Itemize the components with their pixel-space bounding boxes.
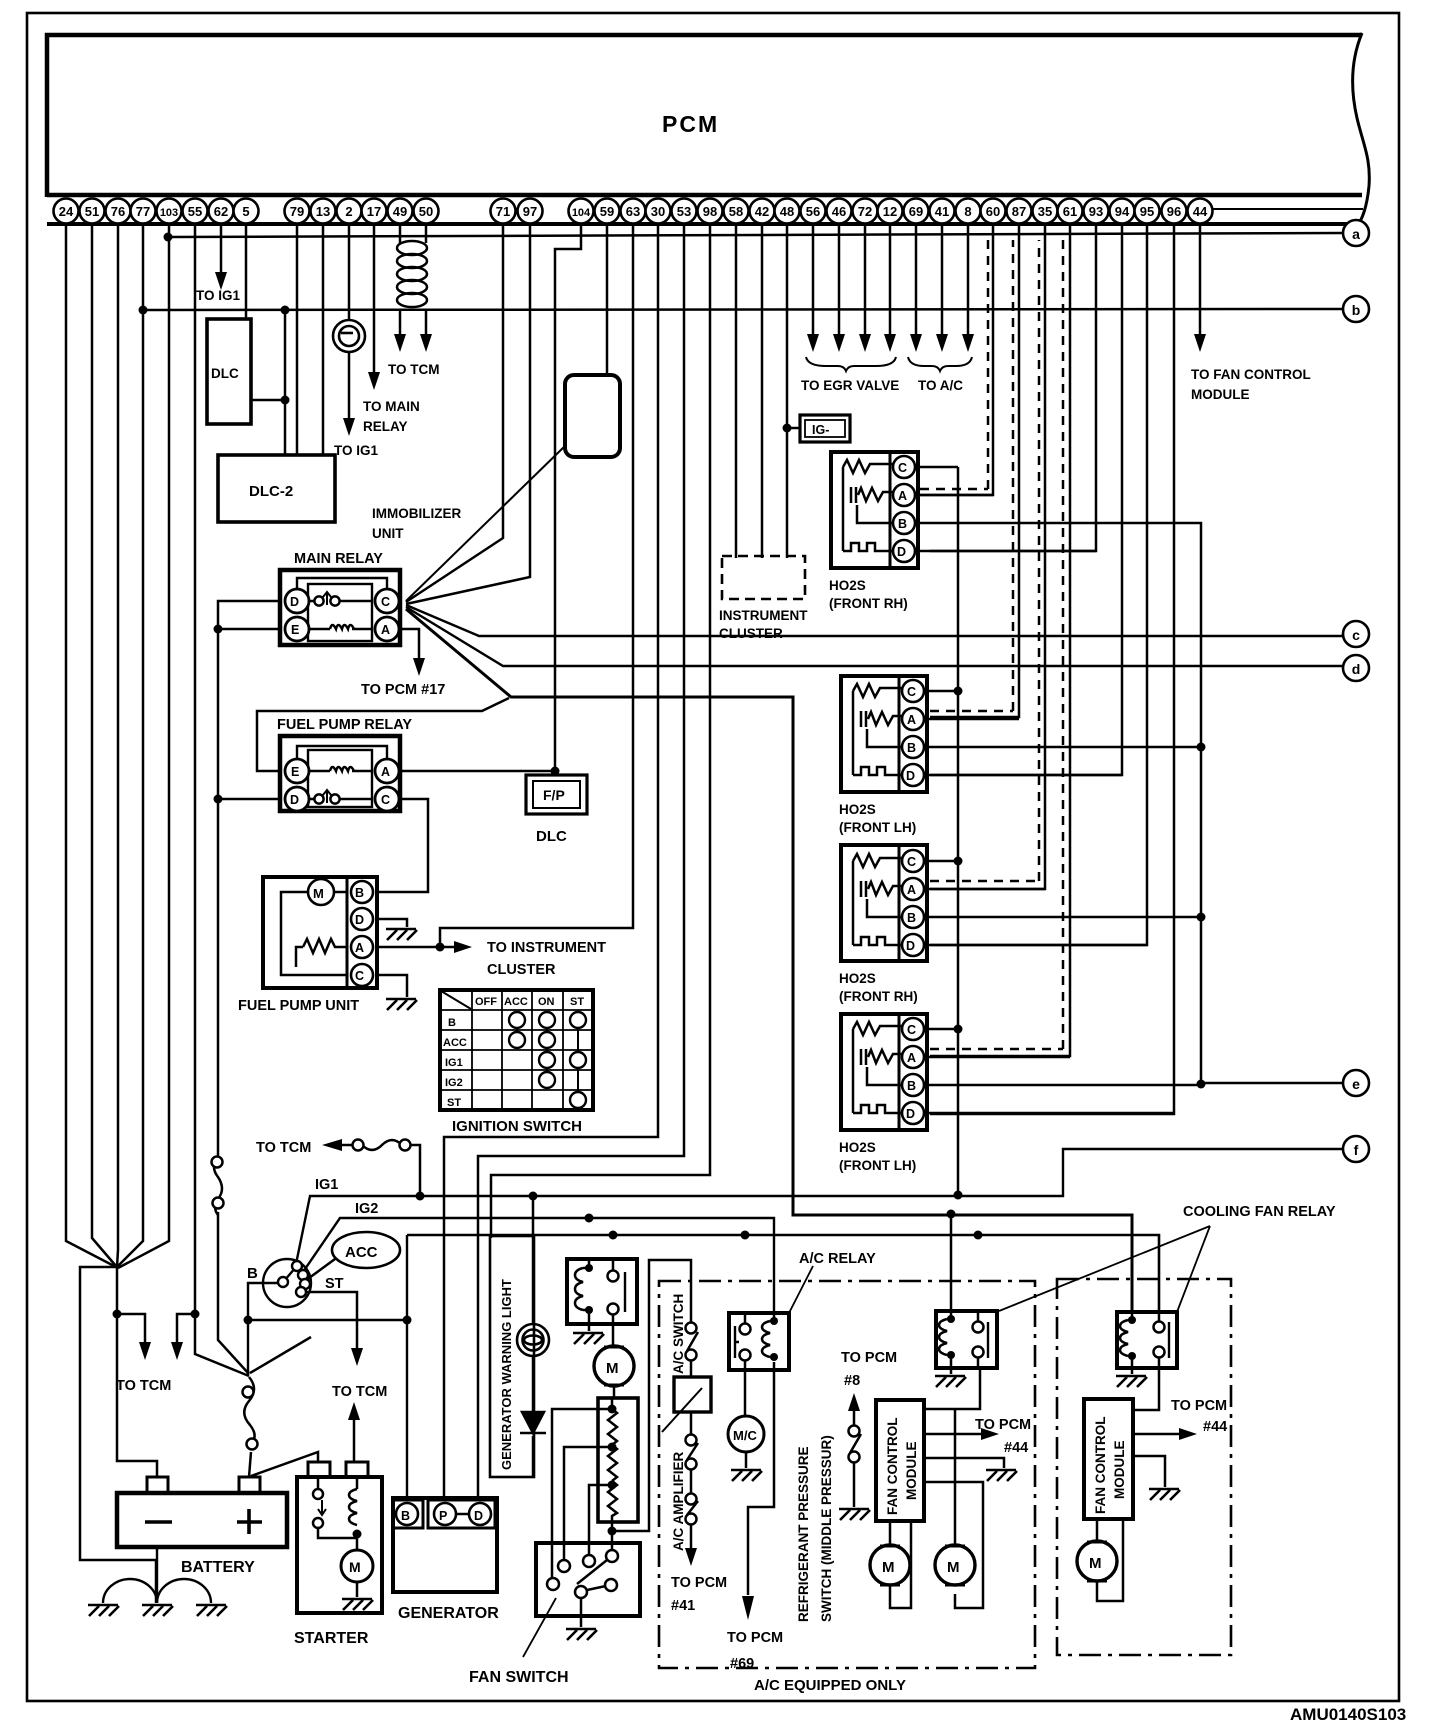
svg-text:C: C <box>381 595 390 609</box>
svg-text:59: 59 <box>600 204 614 219</box>
svg-text:D: D <box>474 1509 483 1523</box>
wire blower relay coil to ground <box>588 1324 591 1331</box>
wire pin 55 <box>195 225 249 1376</box>
wire battery plus to starter <box>251 1452 318 1476</box>
PCM connector pin row (pins 24,51,76,77,103,55,62,5,79,13,2,17,49,50,71,97,104,59,63,30,53,98,58,42,48,56,46,72,12,69,41,8,60,87,35,61,93,94,95,96,44) <box>54 199 1213 224</box>
wire ground trunk to battery minus <box>117 1266 157 1477</box>
node c <box>1343 621 1369 647</box>
ground battery centre <box>142 1605 173 1616</box>
wire resistor tap 3 to fan switch <box>589 1485 612 1555</box>
svg-text:D: D <box>897 545 906 559</box>
fuel pump unit <box>263 877 377 988</box>
svg-text:D: D <box>290 793 299 807</box>
svg-text:TO MAIN: TO MAIN <box>363 399 420 414</box>
arrows TO EGR VALVE group <box>807 334 819 352</box>
ground refrigerant switch <box>839 1509 870 1520</box>
wire pin 61 to HO2S front LH3 A <box>930 225 1070 1056</box>
svg-text:DLC-2: DLC-2 <box>249 483 293 500</box>
arrow pin 44 <box>1194 334 1206 352</box>
svg-text:ST: ST <box>570 996 584 1008</box>
svg-text:PCM: PCM <box>662 111 719 137</box>
battery <box>117 1477 287 1547</box>
wire pin 95 to HO2S front RH2 D <box>930 225 1147 945</box>
svg-text:DLC: DLC <box>211 366 239 381</box>
svg-text:96: 96 <box>1167 204 1181 219</box>
wire main relay A TO PCM 17 <box>400 629 419 660</box>
svg-text:TO IG1: TO IG1 <box>196 288 241 303</box>
svg-text:CLUSTER: CLUSTER <box>719 626 783 641</box>
ignition switch table <box>440 990 593 1110</box>
svg-text:#69: #69 <box>730 1656 754 1672</box>
wire HO2S4 C <box>924 1028 958 1031</box>
ignition switch rotary <box>263 1259 311 1307</box>
svg-text:a: a <box>1352 226 1360 242</box>
svg-text:C: C <box>898 461 907 475</box>
svg-text:TO FAN CONTROL: TO FAN CONTROL <box>1191 367 1311 382</box>
wire HO2S2 C <box>924 690 958 693</box>
wire pin 48 to instrument cluster <box>786 225 789 558</box>
svg-text:#8: #8 <box>844 1373 860 1389</box>
svg-text:D: D <box>355 913 364 927</box>
svg-text:A/C RELAY: A/C RELAY <box>799 1251 876 1267</box>
svg-text:GENERATOR: GENERATOR <box>398 1605 499 1622</box>
wire pin 24 ground <box>66 225 116 1267</box>
svg-text:C: C <box>907 685 916 699</box>
svg-text:72: 72 <box>858 204 872 219</box>
svg-text:TO IG1: TO IG1 <box>334 443 379 458</box>
svg-text:FUEL PUMP RELAY: FUEL PUMP RELAY <box>277 717 412 733</box>
arrow pin 49 <box>394 334 406 352</box>
fan motor 1 <box>870 1521 911 1608</box>
svg-text:FAN SWITCH: FAN SWITCH <box>469 1669 569 1686</box>
wire HO2S1 C to heater bus <box>915 466 958 469</box>
svg-text:62: 62 <box>214 204 228 219</box>
svg-text:44: 44 <box>1193 204 1208 219</box>
svg-text:87: 87 <box>1012 204 1026 219</box>
svg-text:C: C <box>355 969 364 983</box>
wire pin 8 TO A/C <box>967 225 970 336</box>
svg-text:(FRONT LH): (FRONT LH) <box>839 1158 916 1173</box>
svg-text:103: 103 <box>160 207 178 219</box>
ground magnetic clutch <box>745 1452 748 1468</box>
svg-text:61: 61 <box>1063 204 1077 219</box>
wire pin 76 ground <box>117 225 118 1267</box>
wire pin 30 to generator P <box>444 225 658 1500</box>
arrow pin 17 <box>368 372 380 390</box>
ground fuel pump C <box>386 999 417 1010</box>
svg-text:76: 76 <box>111 204 125 219</box>
svg-text:#44: #44 <box>1004 1440 1028 1456</box>
dashed box cooling fan 2 <box>1057 1279 1231 1655</box>
svg-text:REFRIGERANT PRESSURE: REFRIGERANT PRESSURE <box>796 1446 811 1622</box>
wire battery junction diagonal <box>250 1337 311 1373</box>
A/C relay <box>729 1313 789 1370</box>
wire HO2S1 A <box>915 494 993 497</box>
svg-text:B: B <box>247 1265 258 1282</box>
svg-text:104: 104 <box>572 207 591 219</box>
wire bus b from pin 77 <box>143 309 1343 310</box>
svg-text:42: 42 <box>755 204 769 219</box>
svg-text:B: B <box>355 886 364 900</box>
F/P DLC connector <box>526 775 587 814</box>
svg-text:D: D <box>906 769 915 783</box>
wire pin 17 TO MAIN RELAY <box>373 225 376 373</box>
svg-text:56: 56 <box>806 204 820 219</box>
fan motor 2 <box>935 1409 975 1585</box>
svg-text:M: M <box>313 886 324 901</box>
svg-text:A: A <box>898 489 907 503</box>
wire pin 13 to DLC-2 <box>322 225 325 455</box>
svg-text:e: e <box>1352 1076 1360 1092</box>
wire pin 79 to DLC-2 <box>296 225 299 455</box>
svg-text:IG1: IG1 <box>315 1177 338 1193</box>
wire HO2S3 D <box>924 944 1147 947</box>
svg-text:MODULE: MODULE <box>1112 1441 1127 1500</box>
HO2S front RH connector 1 <box>831 452 918 568</box>
wire pin 94 to HO2S front LH D <box>930 225 1122 775</box>
svg-text:MODULE: MODULE <box>1191 387 1250 402</box>
svg-text:ON: ON <box>538 996 555 1008</box>
wire pin 87 to HO2S front LH A <box>930 225 1019 717</box>
svg-text:(FRONT LH): (FRONT LH) <box>839 820 916 835</box>
wire relay2 contact to module2 <box>1133 1368 1159 1410</box>
wire immobilizer pointer to main relay C <box>406 445 566 601</box>
svg-text:INSTRUMENT: INSTRUMENT <box>719 608 808 623</box>
wire fuel pump relay E feed <box>257 698 509 771</box>
svg-text:M: M <box>882 1559 895 1576</box>
lamp generator warning light <box>517 1324 549 1356</box>
ground cooling fan relay 1 <box>950 1368 953 1374</box>
wire resistor tap 2 to fan switch <box>564 1447 612 1560</box>
wire module TO PCM 44 <box>924 1433 985 1436</box>
svg-text:A/C AMPLIFIER: A/C AMPLIFIER <box>671 1452 686 1551</box>
svg-text:17: 17 <box>367 204 381 219</box>
wire HO2S3 A <box>924 888 1045 891</box>
svg-text:AMU0140S103: AMU0140S103 <box>1290 1705 1406 1724</box>
svg-text:HO2S: HO2S <box>839 971 876 986</box>
svg-text:30: 30 <box>651 204 665 219</box>
shield coil on wires 49 and 50 <box>397 241 427 307</box>
svg-text:d: d <box>1352 661 1361 677</box>
pin wires group <box>66 225 1200 1603</box>
wire main relay E <box>218 628 280 631</box>
svg-text:TO PCM: TO PCM <box>727 1630 783 1646</box>
svg-text:53: 53 <box>677 204 691 219</box>
svg-text:B: B <box>907 1079 916 1093</box>
svg-text:M: M <box>349 1559 361 1575</box>
svg-text:IGNITION SWITCH: IGNITION SWITCH <box>452 1118 582 1135</box>
wire module to fan motor 2 <box>924 1482 983 1608</box>
fan control module 1 <box>876 1400 924 1521</box>
svg-text:HO2S: HO2S <box>839 802 876 817</box>
svg-text:C: C <box>381 793 390 807</box>
wire A/C relay coil to PCM 69 <box>748 1370 774 1595</box>
wire battery plus connector squiggle <box>243 1377 258 1450</box>
fan control module 2 <box>1084 1399 1133 1519</box>
wire pin 62 TO IG1 <box>220 225 223 274</box>
wire pin 50 TO TCM <box>425 225 428 336</box>
svg-text:TO PCM #17: TO PCM #17 <box>361 682 445 698</box>
svg-text:ACC: ACC <box>443 1037 467 1049</box>
svg-text:ACC: ACC <box>345 1244 378 1261</box>
svg-text:98: 98 <box>703 204 717 219</box>
svg-text:TO INSTRUMENT: TO INSTRUMENT <box>487 940 606 956</box>
svg-text:ACC: ACC <box>504 996 528 1008</box>
svg-text:b: b <box>1352 302 1361 318</box>
wire pin 42 to instrument cluster <box>761 225 764 558</box>
svg-text:M: M <box>1089 1555 1102 1572</box>
svg-text:TO TCM: TO TCM <box>116 1378 171 1394</box>
svg-text:TO TCM: TO TCM <box>388 362 440 377</box>
svg-text:TO A/C: TO A/C <box>918 378 963 393</box>
blower motor <box>594 1346 634 1386</box>
wire HO2S1 B to sensor bus <box>915 523 1201 1083</box>
svg-text:M: M <box>606 1360 619 1377</box>
wire pin 98 to generator warning light <box>491 225 710 1238</box>
wire pin 44 TO FAN CONTROL MODULE <box>1199 225 1202 336</box>
arrow pin 62 <box>215 272 227 290</box>
svg-text:#44: #44 <box>1203 1419 1227 1435</box>
wire chassis ground branch <box>80 1267 156 1603</box>
svg-text:48: 48 <box>780 204 794 219</box>
wire HO2S4 D <box>924 1112 1174 1115</box>
wire resistor bottom to fan switch and A/C switch <box>612 1260 691 1550</box>
immobilizer unit <box>565 375 620 457</box>
wire module to ground <box>924 1458 1004 1468</box>
wire pin 96 to HO2S front LH3 D <box>930 225 1174 1114</box>
svg-text:ST: ST <box>325 1276 344 1292</box>
svg-text:8: 8 <box>964 204 971 219</box>
wire TO TCM branch right <box>177 1314 195 1344</box>
svg-text:CLUSTER: CLUSTER <box>487 962 556 978</box>
wire node b branch to DLC-2 <box>284 310 287 455</box>
svg-text:2: 2 <box>345 204 352 219</box>
fan motor 3 <box>1077 1519 1123 1601</box>
wire pin 71 to main relay C <box>406 225 503 602</box>
svg-text:IG2: IG2 <box>355 1201 378 1217</box>
svg-text:55: 55 <box>188 204 202 219</box>
wire pin 63 to fuel pump A <box>440 225 633 947</box>
generator <box>393 1498 497 1592</box>
wire fuel pump relay D <box>218 798 280 801</box>
wire A/C relay to magnetic clutch <box>744 1370 747 1416</box>
svg-text:F/P: F/P <box>543 787 565 803</box>
wire pin 77 ground <box>117 225 143 1267</box>
svg-text:RELAY: RELAY <box>363 419 408 434</box>
pin number labels <box>59 204 1208 219</box>
node d <box>1343 655 1369 681</box>
ground blower relay <box>573 1333 604 1344</box>
node f <box>1343 1136 1369 1162</box>
wire bus a from pin 103 <box>168 233 1343 237</box>
wire heater bus <box>957 467 960 1195</box>
HO2S front RH connector 2 <box>841 845 927 961</box>
svg-text:(FRONT RH): (FRONT RH) <box>839 989 918 1004</box>
svg-text:A: A <box>381 623 390 637</box>
IG- box <box>800 415 850 442</box>
svg-text:B: B <box>907 741 916 755</box>
svg-text:51: 51 <box>85 204 99 219</box>
wire pin 5 to DLC <box>245 225 248 319</box>
wire pin 69 TO A/C <box>915 225 918 336</box>
wire pin 58 to instrument cluster <box>735 225 738 558</box>
svg-text:FAN CONTROL: FAN CONTROL <box>885 1418 900 1516</box>
svg-text:93: 93 <box>1089 204 1103 219</box>
svg-text:94: 94 <box>1115 204 1130 219</box>
wire pin 103 ground <box>118 225 169 1268</box>
svg-text:D: D <box>290 595 299 609</box>
svg-text:13: 13 <box>316 204 330 219</box>
wire pin 56 TO EGR VALVE <box>812 225 815 336</box>
instrument cluster <box>722 556 805 599</box>
svg-text:c: c <box>1352 627 1360 643</box>
wire DLC to node <box>251 399 285 402</box>
wire TO TCM branch left <box>117 1314 145 1344</box>
wire HO2S3 C <box>924 860 958 863</box>
brace A/C <box>908 357 972 371</box>
wire fuel pump A to instrument cluster <box>377 946 455 949</box>
svg-text:TO PCM: TO PCM <box>671 1575 727 1591</box>
wire pin 41 TO A/C <box>941 225 944 336</box>
wire HO2S2 A <box>924 718 1019 721</box>
ground cooling fan relay 2 <box>1131 1368 1134 1374</box>
wire pin 46 TO EGR VALVE <box>838 225 841 336</box>
svg-text:97: 97 <box>523 204 537 219</box>
svg-text:TO TCM: TO TCM <box>256 1140 311 1156</box>
wire resistor tap 1 to fan switch <box>552 1409 612 1578</box>
magnetic clutch M/C <box>728 1416 764 1452</box>
svg-text:49: 49 <box>393 204 407 219</box>
svg-text:58: 58 <box>729 204 743 219</box>
wire B feed bus <box>248 1235 407 1500</box>
svg-text:TO PCM: TO PCM <box>1171 1398 1227 1414</box>
svg-text:69: 69 <box>909 204 923 219</box>
wire pin 72 TO EGR VALVE <box>864 225 867 336</box>
svg-text:24: 24 <box>59 204 74 219</box>
svg-text:A: A <box>907 1051 916 1065</box>
wire pin 97 to main relay C <box>406 225 530 604</box>
svg-text:FAN CONTROL: FAN CONTROL <box>1093 1417 1108 1515</box>
wire pin 2 <box>348 225 351 420</box>
wire pin 49 TO TCM <box>399 225 402 336</box>
svg-text:COOLING FAN RELAY: COOLING FAN RELAY <box>1183 1204 1336 1220</box>
generator warning light box <box>490 1236 534 1477</box>
svg-text:MODULE: MODULE <box>904 1442 919 1501</box>
svg-text:OFF: OFF <box>475 996 497 1008</box>
node a <box>1343 220 1369 246</box>
svg-text:77: 77 <box>136 204 150 219</box>
svg-text:HO2S: HO2S <box>839 1140 876 1155</box>
wire module2 to ground <box>1133 1456 1165 1487</box>
svg-text:A: A <box>381 765 390 779</box>
wire HO2S4 A <box>924 1056 1070 1059</box>
wire main relay D west trunk <box>218 601 280 1157</box>
PCM box <box>47 33 1369 226</box>
svg-text:B: B <box>898 517 907 531</box>
svg-text:HO2S: HO2S <box>829 578 866 593</box>
diode <box>520 1412 546 1433</box>
arrows TO A/C group <box>910 334 922 352</box>
svg-text:M/C: M/C <box>733 1428 757 1443</box>
dashed box A/C equipped only <box>659 1281 1035 1668</box>
svg-text:UNIT: UNIT <box>372 526 404 541</box>
wire battery minus to ground <box>156 1547 158 1603</box>
shield dashes HO2S4 <box>930 240 1063 1049</box>
svg-text:MAIN RELAY: MAIN RELAY <box>294 551 383 567</box>
node b <box>1343 296 1369 322</box>
svg-text:63: 63 <box>626 204 640 219</box>
svg-text:TO PCM: TO PCM <box>841 1350 897 1366</box>
DLC box <box>207 319 251 424</box>
svg-text:M: M <box>947 1559 960 1576</box>
wire module to fan relay contact <box>924 1368 980 1409</box>
svg-text:IG2: IG2 <box>445 1077 463 1089</box>
svg-text:12: 12 <box>883 204 897 219</box>
svg-text:E: E <box>291 623 299 637</box>
wire ACC <box>305 1259 335 1281</box>
svg-text:C: C <box>907 855 916 869</box>
shield dashes HO2S1 <box>920 240 988 489</box>
svg-text:60: 60 <box>986 204 1000 219</box>
wire blower relay to motor <box>612 1324 615 1345</box>
svg-text:71: 71 <box>496 204 510 219</box>
blower relay <box>567 1259 637 1324</box>
svg-text:B: B <box>401 1509 410 1523</box>
wire pin 60 to HO2S front RH A <box>920 225 993 495</box>
svg-text:#41: #41 <box>671 1598 695 1614</box>
svg-text:(FRONT RH): (FRONT RH) <box>829 596 908 611</box>
wire inline connector on trunk <box>212 1157 224 1216</box>
svg-text:5: 5 <box>242 204 249 219</box>
svg-text:SWITCH (MIDDLE PRESSUR): SWITCH (MIDDLE PRESSUR) <box>819 1435 834 1622</box>
HO2S front LH connector 2 <box>841 1014 927 1130</box>
ground fan switch <box>566 1629 597 1640</box>
svg-text:A: A <box>907 883 916 897</box>
wire module2 TO PCM 44 <box>1133 1433 1180 1436</box>
fan switch <box>536 1543 640 1627</box>
wire pin 12 TO EGR VALVE <box>889 225 892 336</box>
svg-text:46: 46 <box>832 204 846 219</box>
svg-text:f: f <box>1354 1142 1359 1158</box>
svg-text:D: D <box>906 1107 915 1121</box>
wire pin 35 to HO2S front RH2 A <box>930 225 1045 889</box>
wire HO2S3 B <box>924 916 1201 919</box>
starter <box>297 1462 382 1613</box>
wire relay1 coil feed <box>950 1214 953 1311</box>
fan switch label pointer <box>523 1598 556 1657</box>
wire fuel pump C to ground <box>377 975 407 997</box>
wire HO2S2 B <box>924 746 1201 749</box>
wire pin 93 to HO2S front RH D <box>930 225 1096 551</box>
svg-text:A/C SWITCH: A/C SWITCH <box>671 1294 686 1374</box>
ACC bubble <box>332 1232 400 1268</box>
HO2S front LH connector 1 <box>841 676 927 792</box>
wire pin 59 to immobilizer unit <box>606 225 609 375</box>
svg-text:A: A <box>355 941 364 955</box>
wire fuel pump D to ground <box>377 919 407 927</box>
svg-text:95: 95 <box>1140 204 1154 219</box>
svg-text:GENERATOR WARNING LIGHT: GENERATOR WARNING LIGHT <box>499 1279 514 1470</box>
svg-text:50: 50 <box>419 204 433 219</box>
wire pin 53 to generator D <box>478 225 684 1500</box>
svg-text:E: E <box>291 765 299 779</box>
wire fuel pump relay A to F/P DLC <box>400 770 555 773</box>
svg-text:TO TCM: TO TCM <box>332 1384 387 1400</box>
svg-text:DLC: DLC <box>536 828 567 845</box>
DLC-2 box <box>218 455 335 522</box>
svg-text:41: 41 <box>935 204 949 219</box>
svg-text:IG1: IG1 <box>445 1057 463 1069</box>
